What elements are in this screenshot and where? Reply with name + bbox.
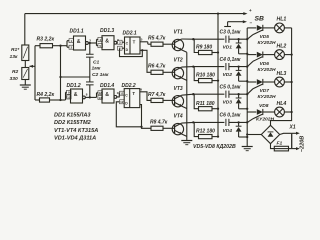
thyristor VD7 <box>247 81 256 83</box>
svg-text:330: 330 <box>10 76 18 82</box>
thyristor VD5 gate lead <box>253 30 262 34</box>
svg-text:VD5: VD5 <box>260 34 270 40</box>
svg-text:&: & <box>77 39 81 45</box>
svg-text:~220В: ~220В <box>300 136 306 153</box>
svg-text:КУ202Н: КУ202Н <box>258 67 276 73</box>
pin 9 <box>67 90 72 94</box>
capacitor C1 <box>89 43 91 54</box>
wire arrow +5V supply <box>243 12 247 15</box>
svg-text:R9 180: R9 180 <box>196 45 212 51</box>
thyristor VD6 gate lead <box>253 57 262 62</box>
svg-text:C3 0,1мк: C3 0,1мк <box>220 29 241 35</box>
wire Qbar to R6 <box>142 50 151 72</box>
svg-text:VD4: VD4 <box>223 128 233 134</box>
pin 10 <box>67 95 72 99</box>
wire DD2.1 Q output <box>140 41 148 43</box>
svg-text:HL4: HL4 <box>277 101 287 107</box>
junction lamp bus row 4 <box>290 111 292 113</box>
thyristor VD8 <box>247 111 256 113</box>
junction C2 bottom <box>89 96 91 98</box>
svg-text:&: & <box>74 92 78 98</box>
junction bridge minus <box>246 133 248 135</box>
junction node B <box>59 76 61 78</box>
junction VD3 anode to bus <box>246 108 248 110</box>
wire collector drop VT4 <box>193 122 198 136</box>
resistor R1 <box>22 45 29 61</box>
junction VD2 anode to bus <box>246 80 248 82</box>
junction Qbar <box>141 49 143 51</box>
wire DD1.4 input split <box>96 93 98 98</box>
thyristor VD7 gate lead <box>253 84 262 89</box>
rectifier bridge VD9-VD12 <box>261 125 279 143</box>
svg-text:DD1.2: DD1.2 <box>67 83 81 89</box>
junction node A <box>59 45 61 47</box>
junction node C <box>59 99 61 101</box>
junction VD1 anode to bus <box>246 53 248 55</box>
svg-text:VT2: VT2 <box>174 58 183 64</box>
svg-text:DD1.3: DD1.3 <box>100 28 114 34</box>
junction R11 to +5V rail <box>217 108 219 110</box>
wire DD1.4 out to DD2.2 <box>117 93 120 97</box>
svg-text:R8 4,7к: R8 4,7к <box>150 119 168 125</box>
svg-text:R2: R2 <box>12 69 19 75</box>
junction lamp bus row 3 <box>290 81 292 83</box>
svg-text:VD2: VD2 <box>223 72 233 78</box>
junction R9 to +5V rail <box>217 51 219 53</box>
wire collector drop VT1 <box>193 39 198 52</box>
svg-text:HL2: HL2 <box>277 43 287 49</box>
svg-text:R3 2,2к: R3 2,2к <box>37 36 55 42</box>
wire +5V rail vertical <box>217 14 219 137</box>
wire DD1.3 input split <box>96 39 98 45</box>
svg-text:HL1: HL1 <box>277 17 287 23</box>
svg-text:C4 0,1мк: C4 0,1мк <box>220 57 241 63</box>
svg-text:F1: F1 <box>277 141 283 147</box>
svg-text:DD1.1: DD1.1 <box>70 29 84 35</box>
svg-text:VT1: VT1 <box>174 30 183 36</box>
resistor R3 <box>35 45 40 47</box>
svg-text:SB: SB <box>255 16 265 23</box>
wire X1 terminal 1 arrow <box>292 132 297 134</box>
svg-text:&: & <box>105 39 109 45</box>
junction C3 to gate bus <box>246 38 248 40</box>
junction VT1 collector node <box>192 38 194 40</box>
svg-text:12: 12 <box>120 100 124 104</box>
svg-text:VT1-VT4 КТ315А: VT1-VT4 КТ315А <box>54 128 98 134</box>
junction C1 tap <box>89 42 91 44</box>
svg-text:КУ202Н: КУ202Н <box>256 116 274 122</box>
svg-text:R10 180: R10 180 <box>196 73 215 79</box>
junction VT3 collector node <box>192 93 194 95</box>
svg-text:+: + <box>249 8 252 13</box>
svg-text:КУ202Н: КУ202Н <box>258 40 276 46</box>
wire R2 to ground <box>24 80 26 86</box>
svg-text:DD2 К155ТМ2: DD2 К155ТМ2 <box>54 120 92 126</box>
wire +5V top bus <box>25 13 244 15</box>
wire vertical feedback rail <box>34 46 36 100</box>
svg-text:КУ202Н: КУ202Н <box>258 94 276 100</box>
junction Qbar2 <box>140 126 142 128</box>
wire DD1.2 out to DD1.4 <box>85 96 96 98</box>
wire lamp return bus <box>271 28 292 125</box>
svg-text:DD1.4: DD1.4 <box>100 83 114 89</box>
pin 5 <box>98 44 103 48</box>
wire collector drop VT2 <box>193 67 198 81</box>
svg-text:C2 1мк: C2 1мк <box>92 72 109 78</box>
svg-text:VD8: VD8 <box>259 103 269 109</box>
svg-text:13к: 13к <box>10 54 18 60</box>
wire DD2.1 Qbar + feedback loop <box>120 48 143 56</box>
svg-text:R6 4,7к: R6 4,7к <box>148 64 166 70</box>
svg-text:VD7: VD7 <box>260 88 270 94</box>
svg-text:−: − <box>250 21 253 26</box>
pin 2 <box>69 45 74 49</box>
thyristor VD6 <box>247 54 256 56</box>
wire DD2.1 D stub <box>122 47 124 49</box>
wire left drop to R1 <box>24 14 26 45</box>
svg-text:VD1-VD4 Д311А: VD1-VD4 Д311А <box>54 135 96 141</box>
svg-text:VD1: VD1 <box>223 45 233 51</box>
wire arrow minus supply <box>228 21 244 23</box>
gate DD1.2 output bubble <box>83 96 86 99</box>
junction VT4 collector node <box>192 121 194 123</box>
wire X1 terminal 2 arrow <box>292 148 297 150</box>
wire Qbar2 to R8 <box>142 127 152 129</box>
wire bridge AC bottom via fuse <box>271 144 275 149</box>
ground supply minus <box>227 22 229 27</box>
svg-text:C6 0,1мк: C6 0,1мк <box>220 113 241 119</box>
wire DD1.3 out to DD2.1 <box>116 42 119 44</box>
svg-text:R7 4,7к: R7 4,7к <box>148 92 166 98</box>
svg-text:VT3: VT3 <box>174 86 183 92</box>
wire DD1.2 input split <box>65 92 67 100</box>
svg-text:R5 4,7к: R5 4,7к <box>148 36 166 42</box>
wire node line <box>61 76 90 78</box>
junction R10 to +5V rail <box>217 79 219 81</box>
ground cathode bus <box>242 146 253 148</box>
wire bridge AC right to X1 <box>280 133 292 134</box>
connector X1 bar <box>291 133 293 148</box>
wire DD1.1 out to DD1.3 <box>88 42 96 44</box>
svg-text:DD2.1: DD2.1 <box>123 31 137 37</box>
svg-text:VT4: VT4 <box>174 114 183 120</box>
junction C4 to gate bus <box>246 65 248 67</box>
gate DD1.3 output bubble <box>114 41 117 44</box>
wire DD2.2 Qbar + feedback loop <box>116 102 141 127</box>
svg-text:HL3: HL3 <box>277 71 287 77</box>
wire fuse to X1 <box>289 148 292 150</box>
svg-text:R1*: R1* <box>11 47 20 53</box>
wire DD2.1 C stub <box>122 41 124 43</box>
svg-text:R4 2,2к: R4 2,2к <box>37 92 55 98</box>
wire collector drop VT3 <box>193 94 198 109</box>
svg-text:DD1 К155ЛА3: DD1 К155ЛА3 <box>54 113 91 119</box>
svg-text:VD5-VD8 КД202В: VD5-VD8 КД202В <box>193 144 236 150</box>
wire bridge minus to cathode bus <box>247 134 261 136</box>
junction R12 to +5V rail <box>217 135 219 137</box>
svg-text:11: 11 <box>120 92 124 96</box>
pin 13 <box>98 95 103 99</box>
wire R1-R2 <box>24 61 26 68</box>
svg-text:C1: C1 <box>93 59 100 65</box>
svg-text:X1: X1 <box>289 125 296 131</box>
svg-text:T: T <box>132 91 135 96</box>
svg-text:R12 180: R12 180 <box>196 129 215 135</box>
wire R3 to DD1.1 inputs <box>53 45 68 47</box>
pin 1 <box>69 39 74 43</box>
pin 12 box DD2.2 D <box>120 100 125 104</box>
wire thyristor cathode bus <box>246 28 248 147</box>
wire divider tap with arrow <box>30 65 36 67</box>
ground emitter bus <box>181 140 192 142</box>
wire oscillator feedback vertical <box>60 46 62 100</box>
svg-text:R11 180: R11 180 <box>196 101 215 107</box>
pin 12 <box>98 91 103 95</box>
junction +5V rail tap <box>217 12 219 14</box>
junction C5 to gate bus <box>246 93 248 95</box>
svg-text:T: T <box>133 40 136 45</box>
pin 2 box DD2.1 D <box>118 46 123 50</box>
thyristor VD8 gate lead <box>253 114 262 119</box>
gate DD1.4 output bubble <box>114 96 117 99</box>
gate DD1.1 output bubble <box>86 42 89 45</box>
svg-text:C5 0,1мк: C5 0,1мк <box>220 84 241 90</box>
junction VD4 anode to bus <box>246 136 248 138</box>
svg-text:VD3: VD3 <box>223 100 233 106</box>
wire DD2.2 D stub <box>123 101 125 103</box>
ground <box>20 84 31 86</box>
pin 4 <box>98 37 103 41</box>
junction lamp bus row 2 <box>290 53 292 55</box>
wire DD1.1 input split <box>66 41 68 48</box>
junction VT2 collector node <box>192 65 194 67</box>
svg-text:1мк: 1мк <box>92 65 101 71</box>
wire emitter bus <box>186 52 188 140</box>
junction C6 to gate bus <box>246 121 248 123</box>
wire DD2.2 Q output <box>140 92 151 101</box>
thyristor VD5 <box>247 27 256 29</box>
pin 3 box DD2.1 C <box>118 40 123 44</box>
pin 11 box DD2.2 C <box>120 91 125 95</box>
svg-text:&: & <box>105 92 109 98</box>
resistor R2 <box>22 68 29 80</box>
svg-text:VD6: VD6 <box>260 61 270 67</box>
